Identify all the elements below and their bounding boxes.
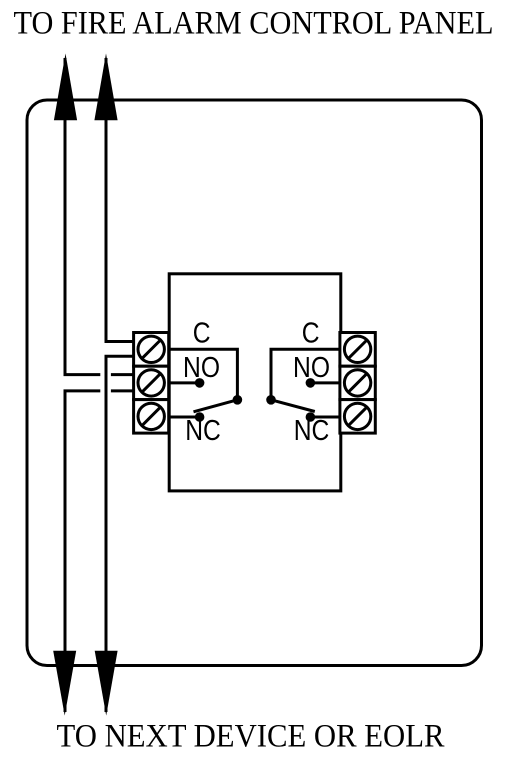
- svg-text:NC: NC: [294, 414, 330, 446]
- left terminal block square 2: [134, 366, 169, 399]
- left relay NC node: [195, 412, 205, 422]
- right relay common node: [266, 395, 276, 405]
- left relay NO node: [195, 378, 205, 388]
- right terminal block square 1: [340, 333, 375, 367]
- right relay NO node: [306, 378, 316, 388]
- wire A incoming stub to middle terminal: [111, 373, 135, 376]
- left terminal screw 2: [138, 370, 164, 396]
- wire B incoming (right vertical from panel): [106, 58, 135, 342]
- svg-text:C: C: [302, 316, 320, 348]
- right relay NO wire: [310, 381, 340, 384]
- left relay NO wire: [169, 381, 200, 384]
- arrowhead down wire B: [95, 651, 118, 716]
- left terminal block square 1: [134, 333, 169, 367]
- svg-text:NO: NO: [293, 351, 330, 383]
- left relay C wire: [169, 349, 238, 396]
- svg-text:TO NEXT DEVICE OR EOLR: TO NEXT DEVICE OR EOLR: [57, 719, 445, 755]
- left terminal screw 1: [138, 336, 164, 362]
- arrowhead up wire A: [54, 54, 77, 121]
- right terminal screw 1: [344, 336, 370, 362]
- svg-text:TO FIRE ALARM CONTROL PANEL: TO FIRE ALARM CONTROL PANEL: [14, 6, 494, 42]
- right relay NC node: [306, 412, 316, 422]
- wire A incoming (left vertical from panel): [65, 58, 100, 375]
- wire B outgoing (from top terminal down to next device): [106, 356, 135, 712]
- svg-text:NO: NO: [183, 351, 220, 383]
- arrowhead up wire B: [94, 54, 117, 121]
- wire A outgoing stub from middle terminal: [111, 389, 135, 392]
- right relay NC wire: [310, 416, 340, 419]
- right terminal block square 3: [340, 400, 375, 434]
- left relay NC wire: [169, 416, 200, 419]
- svg-text:C: C: [193, 316, 211, 348]
- right terminal screw 2: [344, 370, 370, 396]
- enclosure box: [27, 100, 482, 666]
- right terminal screw 3: [344, 403, 370, 429]
- left relay blade (C to NC): [194, 400, 238, 412]
- right relay C wire: [271, 349, 341, 396]
- left relay common node: [233, 395, 243, 405]
- relay module box: [169, 274, 341, 491]
- svg-text:NC: NC: [185, 414, 221, 446]
- left terminal screw 3: [138, 403, 164, 429]
- left terminal block square 3: [134, 400, 169, 434]
- right relay blade (C to NC): [271, 400, 315, 412]
- arrowhead down wire A: [53, 651, 76, 716]
- wire A outgoing (down to next device): [65, 391, 100, 712]
- right terminal block square 2: [340, 366, 375, 399]
